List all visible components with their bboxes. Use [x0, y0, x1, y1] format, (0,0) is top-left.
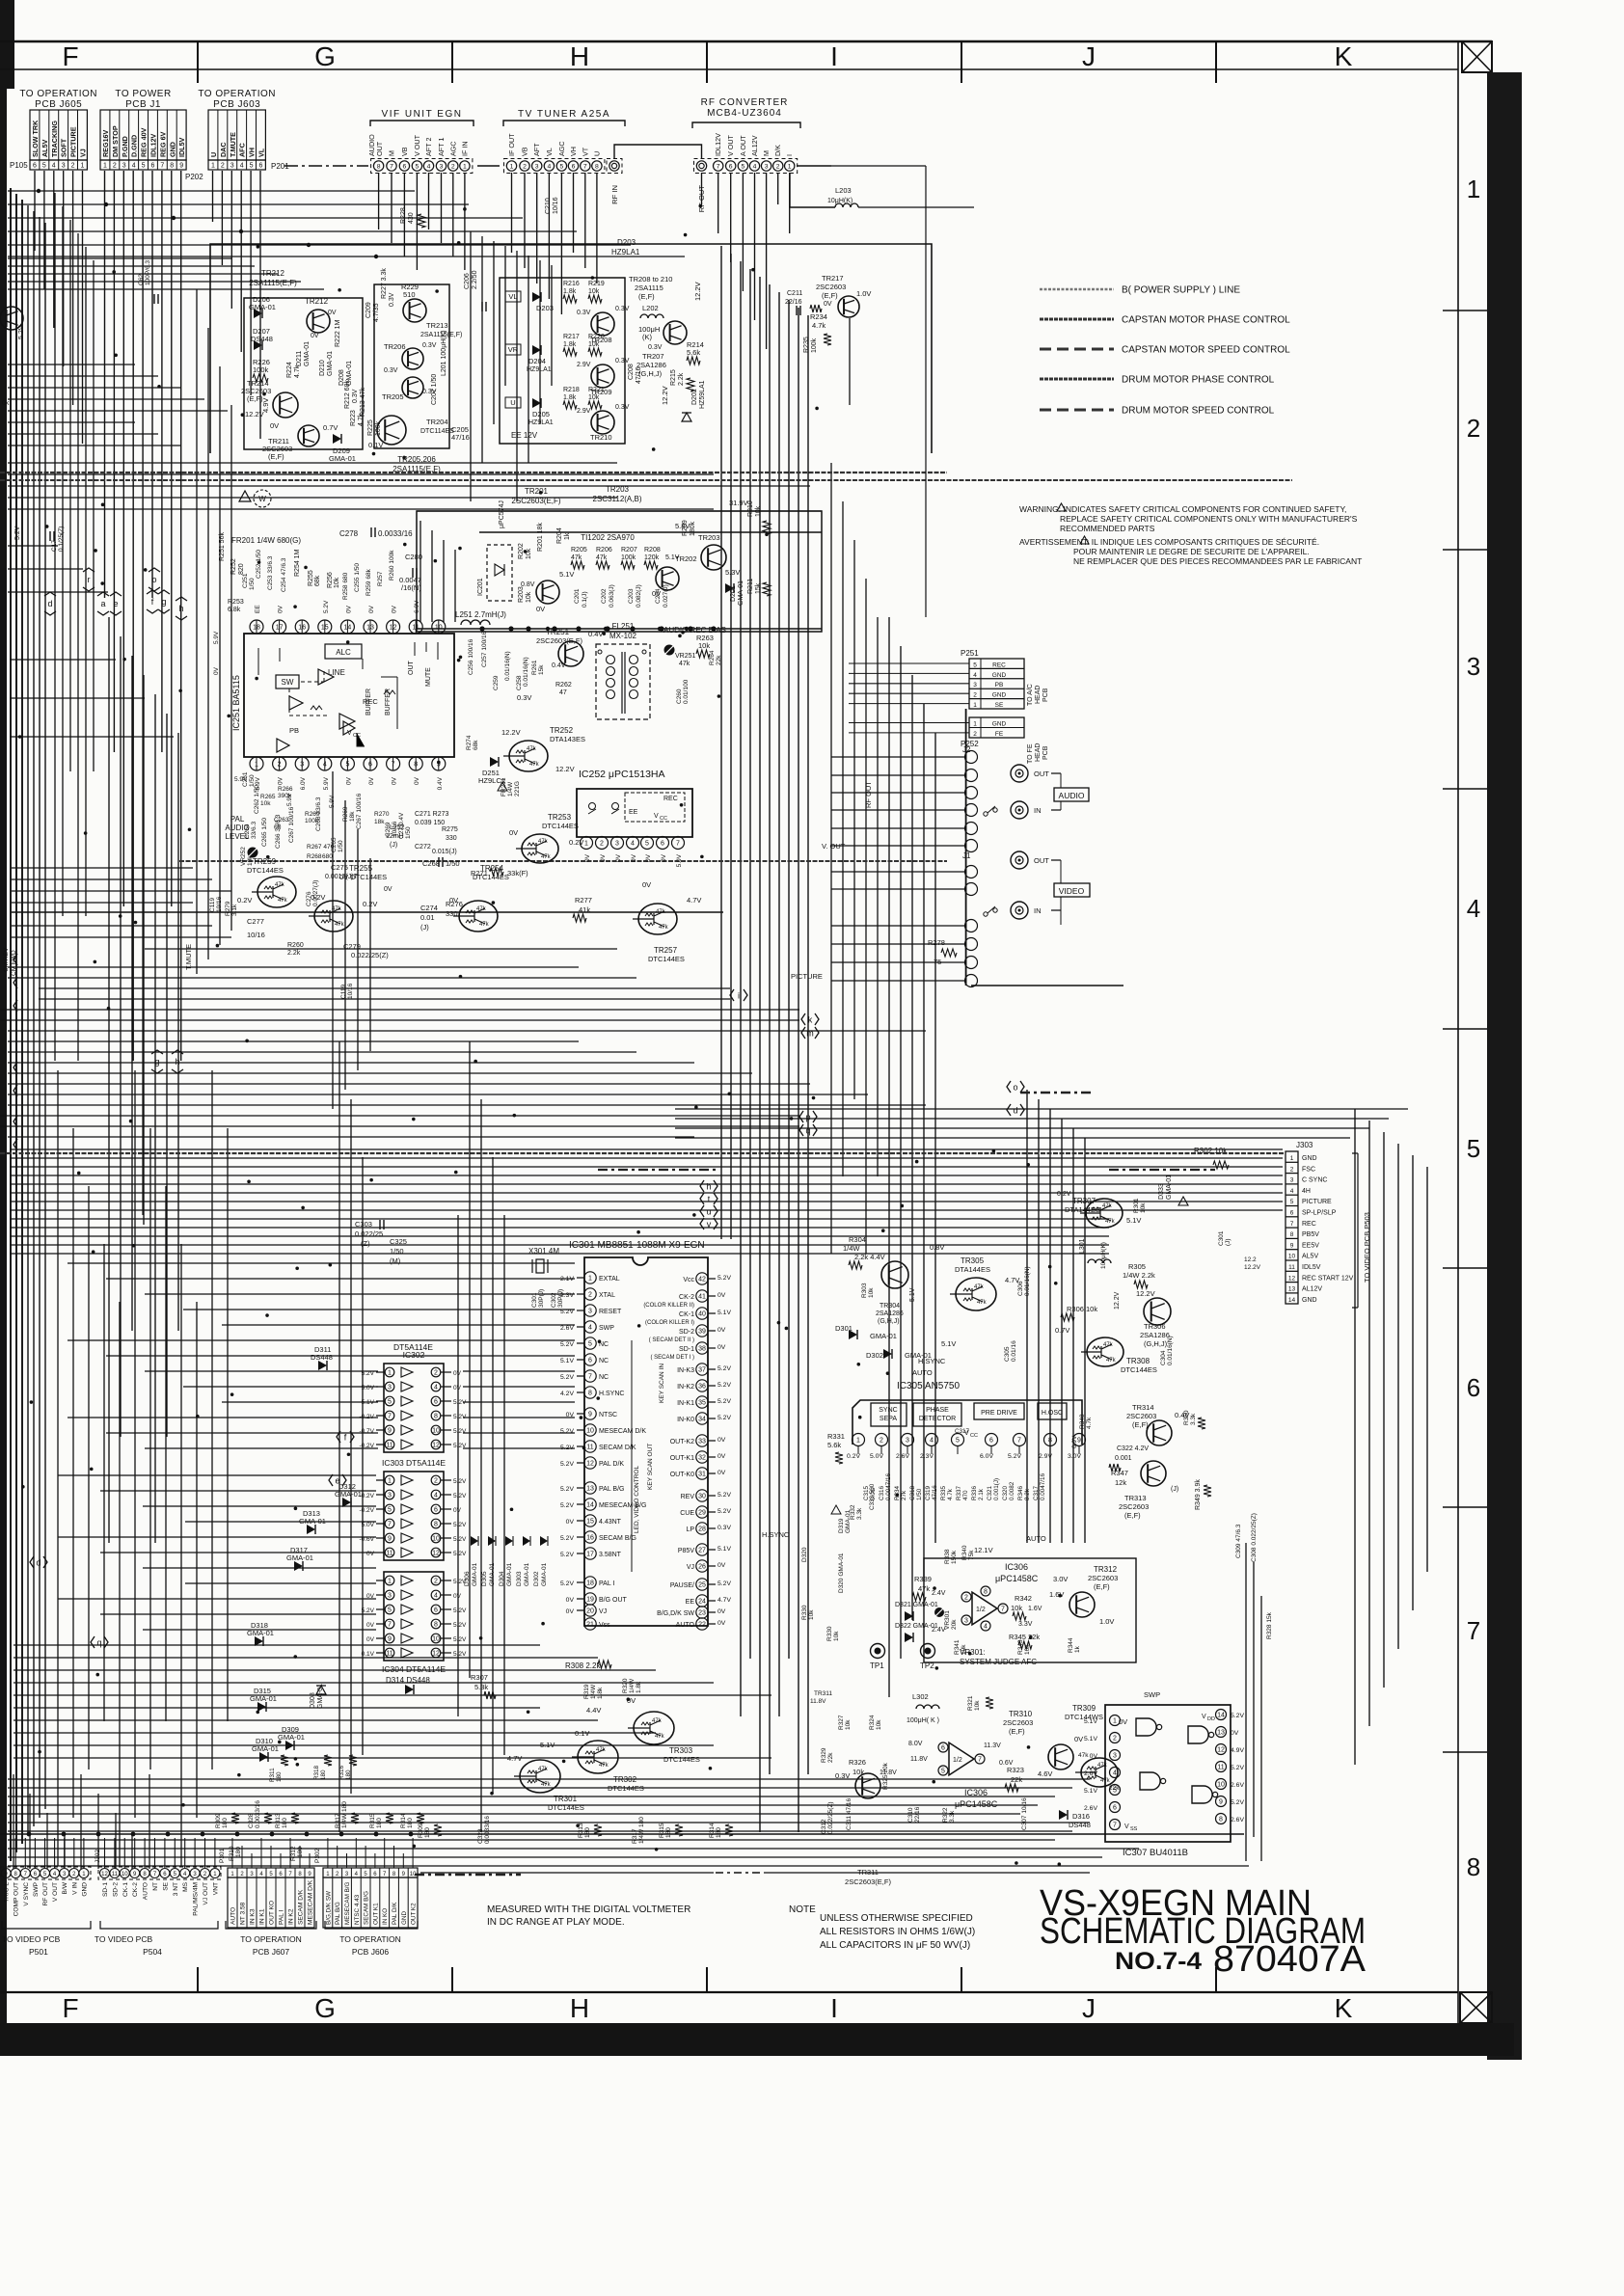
- svg-text:12.2V: 12.2V: [1244, 1264, 1261, 1271]
- svg-text:5: 5: [1290, 1199, 1294, 1205]
- svg-text:CM REV: CM REV: [3, 947, 10, 972]
- svg-text:0V: 0V: [278, 605, 284, 613]
- svg-text:5: 5: [588, 1341, 592, 1348]
- svg-text:27k: 27k: [901, 1490, 907, 1500]
- svg-text:B/G,D/K SW: B/G,D/K SW: [325, 1891, 332, 1925]
- svg-text:I: I: [785, 154, 794, 156]
- svg-text:R313: R313: [275, 1813, 282, 1828]
- svg-text:3: 3: [964, 1618, 968, 1625]
- thick power line y893: [179, 860, 947, 862]
- svg-text:47k: 47k: [656, 909, 666, 915]
- svg-text:0.4V: 0.4V: [588, 630, 603, 638]
- wire bundle: lower-mid horizontals y1700-1840: [14, 1644, 540, 1646]
- svg-text:3: 3: [765, 163, 769, 170]
- svg-text:C317: C317: [955, 1428, 970, 1435]
- svg-text:Vcc: Vcc: [683, 1277, 694, 1283]
- svg-text:G: G: [314, 1993, 336, 2023]
- svg-text:DT5A114E: DT5A114E: [393, 1342, 433, 1352]
- svg-text:47k: 47k: [1106, 1358, 1117, 1364]
- svg-text:R278: R278: [928, 938, 945, 947]
- switch symbols at IN jacks: [984, 812, 988, 816]
- svg-text:R215: R215: [670, 369, 677, 386]
- coil L251 2.7mH: [461, 620, 490, 625]
- svg-text:20k: 20k: [951, 1619, 958, 1630]
- svg-text:5: 5: [941, 1769, 945, 1775]
- svg-text:(G,H,J): (G,H,J): [1144, 1339, 1168, 1348]
- svg-text:R222 1M: R222 1M: [335, 319, 341, 347]
- svg-text:0.4V: 0.4V: [398, 812, 405, 825]
- svg-text:B( POWER SUPPLY ) LINE: B( POWER SUPPLY ) LINE: [1122, 285, 1240, 296]
- svg-text:TR301: TR301: [554, 1795, 578, 1803]
- svg-text:P85V: P85V: [678, 1548, 694, 1554]
- svg-text:P302: P302: [314, 1848, 321, 1863]
- svg-text:5.1V: 5.1V: [909, 1287, 916, 1302]
- svg-text:330: 330: [446, 835, 457, 842]
- svg-text:47/16: 47/16: [932, 1485, 938, 1500]
- svg-text:5.9V: 5.9V: [234, 776, 248, 783]
- svg-text:HEAD: HEAD: [1035, 743, 1042, 762]
- svg-text:D314 DS448: D314 DS448: [386, 1676, 430, 1685]
- svg-text:3: 3: [62, 163, 66, 170]
- svg-text:1/4W: 1/4W: [507, 781, 514, 797]
- svg-text:3 NT: 3 NT: [173, 1882, 179, 1896]
- svg-text:R205: R205: [571, 547, 587, 554]
- svg-text:12.2V: 12.2V: [661, 386, 669, 405]
- svg-text:5.2V: 5.2V: [717, 1415, 731, 1421]
- svg-text:12.2V: 12.2V: [501, 728, 521, 737]
- svg-text:5.1V: 5.1V: [1084, 1736, 1097, 1742]
- svg-text:28: 28: [698, 1526, 706, 1533]
- svg-text:IN: IN: [1034, 906, 1042, 915]
- svg-text:4.7/35: 4.7/35: [373, 303, 380, 322]
- wire bundle: trunk x1060-1140: [1026, 1090, 1028, 1543]
- svg-text:5.9V: 5.9V: [286, 793, 293, 806]
- svg-text:R210: R210: [747, 500, 754, 517]
- svg-text:2: 2: [434, 1478, 438, 1485]
- svg-text:47k: 47k: [476, 906, 487, 912]
- svg-text:13: 13: [586, 1486, 594, 1493]
- svg-text:IDL12V: IDL12V: [149, 133, 157, 157]
- svg-text:0V: 0V: [645, 853, 652, 862]
- svg-text:12.2V: 12.2V: [245, 410, 264, 419]
- row2 outer enclosure box: [210, 244, 932, 453]
- svg-text:TR308: TR308: [1126, 1357, 1150, 1365]
- IC251 internal dashed routing: [289, 689, 328, 716]
- svg-text:LP: LP: [686, 1526, 694, 1533]
- svg-text:D316: D316: [1072, 1812, 1090, 1821]
- svg-text:47k: 47k: [1103, 1342, 1114, 1348]
- svg-text:H: H: [570, 1993, 589, 2023]
- svg-text:0V: 0V: [717, 1453, 726, 1460]
- IC201 uPC574J: [487, 545, 512, 601]
- svg-text:D305: D305: [481, 1571, 488, 1586]
- IC305 pins 1-9: [853, 1434, 865, 1446]
- svg-text:GMA-01: GMA-01: [317, 1684, 324, 1709]
- svg-text:12: 12: [432, 1443, 440, 1449]
- box TR205/TR206 group: [374, 284, 449, 448]
- svg-text:TR212: TR212: [305, 297, 329, 306]
- diode D317: [294, 1561, 303, 1571]
- svg-text:W: W: [258, 495, 266, 503]
- svg-text:47k: 47k: [974, 1284, 985, 1290]
- svg-text:VB: VB: [400, 147, 409, 156]
- svg-text:430: 430: [408, 212, 415, 224]
- svg-text:R323: R323: [1007, 1766, 1024, 1774]
- svg-text:10k: 10k: [876, 1719, 882, 1730]
- svg-text:47k: 47k: [918, 1584, 930, 1593]
- svg-text:5: 5: [388, 1399, 392, 1406]
- bottom black bar: [0, 2023, 1514, 2056]
- svg-text:REG16V: REG16V: [101, 129, 110, 157]
- svg-text:IC303 DT5A114E: IC303 DT5A114E: [382, 1458, 446, 1468]
- svg-text:SW: SW: [282, 678, 294, 687]
- svg-text:0V: 0V: [368, 605, 375, 613]
- svg-text:7: 7: [1001, 1607, 1005, 1613]
- transistor TR304 2SA1286: [881, 1261, 908, 1288]
- wire bundle: horizontals feeding IC301 left pins: [68, 1262, 575, 1264]
- svg-text:30P(J): 30P(J): [538, 1289, 545, 1308]
- svg-text:8: 8: [588, 1391, 592, 1397]
- svg-text:5.1V: 5.1V: [941, 1339, 956, 1348]
- svg-text:TR303: TR303: [669, 1746, 693, 1755]
- svg-text:VR301:: VR301:: [960, 1648, 986, 1657]
- svg-text:TI1202 2SA970: TI1202 2SA970: [581, 533, 635, 542]
- svg-text:R227 3.3k: R227 3.3k: [381, 268, 388, 299]
- diodes D301 D302: [849, 1330, 857, 1339]
- svg-text:8: 8: [434, 1622, 438, 1629]
- svg-text:VIDEO: VIDEO: [1059, 886, 1085, 896]
- svg-text:I: I: [830, 1993, 838, 2023]
- transistor TR306 2SA1286: [1144, 1298, 1171, 1325]
- svg-text:R316: R316: [338, 1765, 345, 1780]
- svg-text:1.8k: 1.8k: [597, 1687, 604, 1699]
- svg-text:5.2V: 5.2V: [560, 1580, 574, 1587]
- svg-text:( SECAM DET II ): ( SECAM DET II ): [649, 1337, 694, 1343]
- svg-text:11.3V: 11.3V: [984, 1742, 1001, 1749]
- svg-text:21: 21: [586, 1622, 594, 1629]
- wire bundle: row4 long horizontals upper: [12, 867, 193, 869]
- svg-text:C202: C202: [601, 588, 608, 604]
- svg-text:(G,H,J): (G,H,J): [878, 1318, 900, 1325]
- svg-text:2.6V: 2.6V: [560, 1325, 574, 1332]
- svg-text:100μH(K): 100μH(K): [1100, 1242, 1107, 1269]
- svg-text:10k: 10k: [1140, 1202, 1147, 1213]
- wire bundle: row4-5 long horizontals: [8, 966, 579, 968]
- svg-text:V OUT: V OUT: [726, 134, 735, 156]
- svg-text:5.2V: 5.2V: [1008, 1453, 1021, 1460]
- svg-text:5: 5: [388, 1507, 392, 1514]
- svg-text:A OUT: A OUT: [739, 135, 747, 156]
- svg-text:32: 32: [698, 1455, 706, 1462]
- svg-text:R259 68k: R259 68k: [365, 568, 372, 596]
- svg-text:D304: D304: [499, 1571, 505, 1586]
- svg-text:0V: 0V: [642, 880, 651, 889]
- svg-text:0V: 0V: [213, 666, 220, 675]
- svg-text:V: V: [1124, 1823, 1129, 1830]
- svg-text:47k: 47k: [652, 1718, 663, 1724]
- svg-text:C321: C321: [987, 1485, 993, 1500]
- svg-text:C211: C211: [787, 290, 802, 297]
- left-edge wire end chevrons: [14, 954, 17, 965]
- svg-text:6: 6: [1467, 1373, 1480, 1402]
- svg-text:TR253: TR253: [548, 813, 572, 822]
- svg-text:5.9V: 5.9V: [213, 631, 220, 644]
- svg-text:C333 560: C333 560: [869, 1483, 876, 1510]
- svg-text:C301: C301: [1218, 1230, 1225, 1246]
- svg-text:0V: 0V: [717, 1437, 726, 1444]
- svg-text:0.01/100: 0.01/100: [683, 679, 690, 704]
- svg-text:12: 12: [586, 1461, 594, 1468]
- svg-text:5.1V: 5.1V: [1084, 1788, 1097, 1795]
- svg-text:0V: 0V: [717, 1608, 726, 1615]
- svg-text:3.3k: 3.3k: [1190, 1413, 1197, 1425]
- legend line: CAPSTAN MOTOR SPEED CONTROL: [1040, 348, 1114, 351]
- thick capstan control line y490: [0, 472, 947, 473]
- svg-text:e: e: [113, 599, 118, 608]
- svg-text:5.2V: 5.2V: [453, 1651, 467, 1658]
- svg-text:IC305 AN5750: IC305 AN5750: [897, 1381, 960, 1391]
- footer column dividers: [197, 1967, 199, 1992]
- svg-text:TR208 to 210: TR208 to 210: [629, 275, 672, 284]
- svg-text:VJ OUT: VJ OUT: [203, 1882, 209, 1904]
- svg-text:7: 7: [717, 163, 720, 170]
- svg-text:R338: R338: [944, 1549, 951, 1564]
- svg-text:5.2V: 5.2V: [560, 1552, 574, 1558]
- svg-text:D201: D201: [730, 585, 737, 602]
- resistors R311 R318 R316 180: [281, 1755, 288, 1766]
- svg-text:100k: 100k: [621, 554, 636, 561]
- svg-text:18k: 18k: [349, 811, 356, 822]
- svg-text:o: o: [151, 575, 156, 584]
- svg-text:5.2V: 5.2V: [362, 1370, 375, 1377]
- svg-text:1/4W 2.2k: 1/4W 2.2k: [1123, 1271, 1155, 1280]
- svg-text:0.2V: 0.2V: [1057, 1191, 1071, 1198]
- svg-text:DTC144ES: DTC144ES: [548, 1803, 584, 1812]
- connector P252: [969, 717, 1024, 738]
- svg-text:0.3V: 0.3V: [615, 404, 630, 411]
- svg-text:47/16: 47/16: [636, 366, 642, 384]
- transistor TR212: [307, 310, 330, 333]
- svg-text:PAL D/K: PAL D/K: [392, 1902, 398, 1925]
- svg-text:DTC144ES: DTC144ES: [1121, 1365, 1157, 1374]
- svg-text:R271: R271: [471, 869, 488, 878]
- svg-text:m: m: [806, 1029, 814, 1039]
- svg-text:TR259: TR259: [253, 857, 277, 866]
- svg-text:1: 1: [510, 163, 514, 170]
- svg-text:R334: R334: [894, 1485, 901, 1500]
- svg-text:R346: R346: [1017, 1485, 1024, 1500]
- svg-text:R321: R321: [967, 1695, 974, 1711]
- svg-text:4: 4: [240, 163, 244, 170]
- svg-text:D205: D205: [532, 410, 550, 419]
- transistor TR206: [402, 348, 423, 369]
- svg-text:d: d: [1013, 1106, 1017, 1116]
- svg-text:38: 38: [698, 1346, 706, 1353]
- svg-text:0V: 0V: [328, 310, 337, 316]
- svg-text:AL12V: AL12V: [750, 135, 759, 156]
- svg-text:3.3V: 3.3V: [1018, 1621, 1033, 1628]
- svg-text:2SC2603: 2SC2603: [816, 283, 846, 291]
- svg-text:V OUT: V OUT: [52, 1882, 59, 1902]
- IC251 BA5115 box: [244, 634, 454, 757]
- svg-text:C266 33/6.3: C266 33/6.3: [275, 814, 282, 849]
- svg-text:11: 11: [386, 1551, 392, 1557]
- svg-text:1.8k: 1.8k: [563, 341, 577, 348]
- wire bundle: J303 feed horizontals: [10, 1148, 1283, 1150]
- wire bundle: horizontal band below top connectors: [8, 190, 415, 192]
- svg-text:5.2V: 5.2V: [717, 1275, 731, 1282]
- svg-text:6: 6: [150, 163, 154, 170]
- svg-text:HZ9LA1: HZ9LA1: [527, 366, 552, 373]
- svg-text:TRIC L: TRIC L: [4, 1882, 11, 1903]
- svg-text:180: 180: [665, 1827, 672, 1838]
- svg-text:TR311: TR311: [814, 1690, 832, 1697]
- svg-text:C201: C201: [574, 588, 581, 604]
- diodes D203 D204 D205: [532, 292, 541, 302]
- svg-text:3: 3: [588, 1309, 592, 1315]
- svg-text:REC: REC: [1302, 1221, 1316, 1228]
- svg-text:TR207: TR207: [642, 352, 664, 361]
- legend line: DRUM MOTOR PHASE CONTROL: [1040, 378, 1114, 381]
- svg-text:18: 18: [586, 1580, 594, 1587]
- svg-text:SYSTEM JUDGE AFC: SYSTEM JUDGE AFC: [960, 1658, 1037, 1666]
- svg-text:25: 25: [698, 1582, 706, 1589]
- svg-text:C SYNC: C SYNC: [1302, 1177, 1327, 1184]
- svg-text:EE 12V: EE 12V: [511, 431, 538, 440]
- svg-text:1.0V: 1.0V: [1099, 1617, 1114, 1626]
- svg-text:8: 8: [1290, 1231, 1294, 1238]
- svg-text:TRACKING: TRACKING: [50, 121, 59, 157]
- svg-text:8.0V: 8.0V: [908, 1741, 923, 1747]
- svg-text:3.3k: 3.3k: [856, 1507, 863, 1520]
- svg-text:TO OPERATION: TO OPERATION: [198, 89, 276, 99]
- svg-text:FE: FE: [995, 731, 1004, 738]
- svg-text:IC252 μPC1513HA: IC252 μPC1513HA: [579, 769, 665, 780]
- svg-text:(K): (K): [642, 333, 653, 341]
- svg-text:13: 13: [1288, 1286, 1296, 1293]
- svg-text:PCB J1: PCB J1: [125, 99, 161, 110]
- svg-text:8: 8: [170, 163, 174, 170]
- wire bundle: central trunk verticals: [720, 246, 722, 1239]
- svg-text:DTC144ES: DTC144ES: [648, 955, 685, 963]
- svg-text:NOTE: NOTE: [789, 1904, 816, 1915]
- svg-text:47k: 47k: [1102, 1203, 1113, 1209]
- svg-text:5.6k: 5.6k: [827, 1441, 841, 1449]
- svg-text:0V: 0V: [392, 776, 398, 785]
- svg-text:9: 9: [388, 1536, 392, 1543]
- svg-text:C328: C328: [248, 1813, 255, 1828]
- svg-text:47k: 47k: [1078, 1752, 1089, 1759]
- svg-text:R309: R309: [418, 1823, 424, 1838]
- svg-text:0.3V: 0.3V: [577, 310, 591, 316]
- svg-text:5: 5: [388, 1607, 392, 1614]
- svg-text:0V: 0V: [717, 1327, 726, 1334]
- svg-text:2: 2: [451, 163, 455, 170]
- svg-text:6: 6: [1290, 1210, 1294, 1217]
- wire RF IN to RF OUT: [614, 145, 702, 159]
- svg-text:870407A: 870407A: [1213, 1939, 1367, 1980]
- svg-text:0V: 0V: [717, 1292, 726, 1299]
- svg-text:0.01/16: 0.01/16: [1011, 1340, 1017, 1362]
- svg-text:TR257: TR257: [654, 946, 678, 955]
- svg-text:OUT: OUT: [1034, 770, 1049, 778]
- svg-text:4.9V: 4.9V: [1231, 1747, 1244, 1754]
- svg-text:F: F: [62, 1993, 78, 2023]
- svg-text:9: 9: [388, 1428, 392, 1435]
- svg-text:ALL RESISTORS IN OHMS 1/6W(J): ALL RESISTORS IN OHMS 1/6W(J): [820, 1927, 975, 1937]
- svg-text:RESET: RESET: [599, 1309, 622, 1315]
- svg-text:L302: L302: [912, 1692, 929, 1701]
- svg-text:4: 4: [1467, 894, 1480, 923]
- svg-text:3: 3: [122, 163, 126, 170]
- svg-text:5.2V: 5.2V: [560, 1445, 574, 1451]
- diode D309: [285, 1741, 294, 1750]
- IC301 left pins 1-21: [584, 1272, 596, 1283]
- svg-text:X301 4M: X301 4M: [528, 1247, 559, 1256]
- svg-text:u: u: [706, 1207, 711, 1217]
- svg-text:0V: 0V: [345, 605, 352, 613]
- svg-text:12k: 12k: [1115, 1478, 1126, 1487]
- svg-text:3: 3: [388, 1493, 392, 1499]
- IC251 top pins 18-10: [250, 620, 263, 634]
- svg-text:TR209: TR209: [590, 388, 612, 396]
- svg-text:2.2k: 2.2k: [287, 950, 301, 957]
- svg-text:CAPSTAN MOTOR PHASE CONTROL: CAPSTAN MOTOR PHASE CONTROL: [1122, 315, 1290, 326]
- svg-text:M: M: [762, 150, 771, 156]
- svg-text:14: 14: [586, 1502, 594, 1509]
- svg-text:IC251 BA5115: IC251 BA5115: [231, 675, 241, 731]
- svg-text:3.3k: 3.3k: [949, 1810, 956, 1823]
- svg-text:GMA-01: GMA-01: [327, 351, 334, 376]
- svg-text:AGC: AGC: [448, 141, 457, 156]
- svg-text:-0.2V: -0.2V: [359, 1443, 374, 1449]
- diode D315: [257, 1702, 266, 1712]
- svg-text:7: 7: [388, 1622, 392, 1629]
- svg-text:PAL B/G: PAL B/G: [335, 1902, 341, 1925]
- svg-text:R312: R312: [290, 1846, 297, 1861]
- svg-text:0V: 0V: [366, 1622, 375, 1629]
- svg-text:4.7k: 4.7k: [812, 321, 826, 330]
- svg-text:11: 11: [386, 1651, 392, 1658]
- svg-text:TP1: TP1: [870, 1661, 884, 1670]
- wire bundle: J1 power rails descending: [104, 171, 106, 598]
- svg-text:R340: R340: [961, 1545, 968, 1560]
- svg-text:D303: D303: [516, 1571, 523, 1586]
- svg-text:VL: VL: [545, 148, 554, 156]
- svg-text:0V: 0V: [717, 1562, 726, 1569]
- svg-text:C62: C62: [138, 274, 145, 285]
- svg-text:47k: 47k: [278, 898, 288, 904]
- svg-text:0.082(J): 0.082(J): [636, 584, 642, 608]
- svg-text:L203: L203: [835, 186, 852, 195]
- transistors TR253 TR254 TR255 TR257 TR259 row4: [314, 901, 353, 932]
- svg-text:22k: 22k: [1011, 1775, 1022, 1784]
- transistor TR310: [1048, 1744, 1073, 1769]
- svg-text:OUT-K2: OUT-K2: [670, 1439, 694, 1445]
- svg-text:AL12V: AL12V: [1302, 1286, 1322, 1293]
- IC302 inverter array: [384, 1364, 444, 1452]
- svg-text:5.2V: 5.2V: [560, 1502, 574, 1509]
- wire bundle: verticals left-bottom x55-230: [57, 1070, 59, 1866]
- svg-text:(E,F): (E,F): [1132, 1420, 1149, 1429]
- svg-text:1: 1: [103, 163, 107, 170]
- svg-text:PAL B/G: PAL B/G: [599, 1486, 624, 1493]
- svg-text:GMA-01: GMA-01: [249, 303, 276, 311]
- coil L203 10uH: [835, 203, 858, 207]
- svg-text:510: 510: [403, 290, 416, 299]
- svg-text:SE: SE: [995, 702, 1004, 709]
- svg-text:7: 7: [588, 1374, 592, 1381]
